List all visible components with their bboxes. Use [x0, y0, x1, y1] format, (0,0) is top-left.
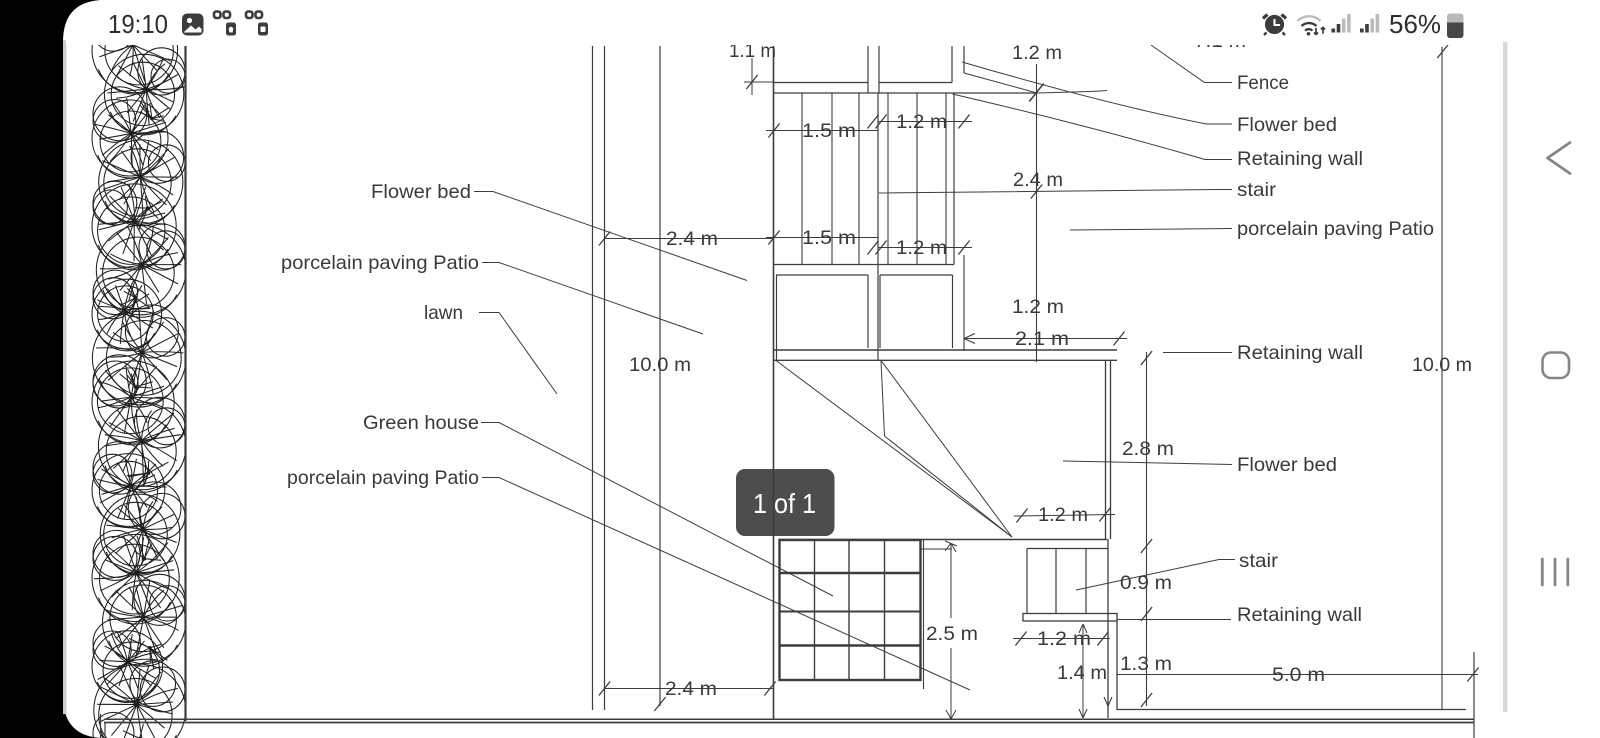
- bottom-left step vertical 2: [104, 723, 106, 738]
- hedge shrub row 1: [92, 7, 178, 93]
- lower stair top edge: [1027, 548, 1108, 550]
- dim 1.2 m low: [1013, 638, 1110, 640]
- hedge shrub row 3: [92, 100, 168, 176]
- stair landing top line: [773, 92, 1037, 94]
- extension line x964 lower: [963, 255, 965, 351]
- hedge shrub row 7: [92, 279, 162, 349]
- stair treads 1.5m side: [801, 93, 803, 265]
- svg-text:porcelain paving Patio: porcelain paving Patio: [281, 252, 479, 274]
- bottom retaining wall top line: [1117, 709, 1466, 711]
- green house leader: [481, 423, 833, 597]
- svg-text:porcelain paving Patio: porcelain paving Patio: [1237, 218, 1434, 240]
- hedge shrub row 11: [92, 454, 165, 527]
- svg-text:2.8 m: 2.8 m: [1122, 438, 1174, 460]
- 1.4 m dim vertical: [1082, 624, 1084, 718]
- second fence diagonal to tick: [964, 73, 1037, 93]
- main wall vertical: [773, 46, 775, 720]
- green house vertical mullions: [814, 541, 816, 679]
- svg-text:2.5 m: 2.5 m: [926, 623, 978, 645]
- 10.0 m dim vertical right: [1441, 47, 1443, 709]
- dim 1.2 m patio: [1014, 515, 1115, 517]
- svg-text:1.2 m: 1.2 m: [1012, 42, 1062, 64]
- dim 1.5 m row1: [766, 130, 878, 132]
- landing line extension: [1037, 91, 1107, 94]
- patio right edge outer: [1110, 360, 1112, 539]
- patio slope ray 2: [881, 361, 1012, 538]
- dim 1.5 m row2: [766, 237, 878, 239]
- bottom-left step vertical 1: [100, 714, 102, 738]
- svg-text:Retaining wall: Retaining wall: [1237, 604, 1362, 626]
- hedge shrub row 8: [92, 311, 186, 405]
- svg-text:2.4 m: 2.4 m: [1013, 169, 1063, 191]
- 2.8 m extension vertical: [1146, 352, 1148, 706]
- notification icon 3: [246, 12, 262, 19]
- svg-text:2.4 m: 2.4 m: [665, 678, 717, 700]
- porcelain paving patio 1 leader: [482, 263, 703, 335]
- stair bottom line: [773, 264, 954, 266]
- porcelain paving patio 2 leader: [482, 478, 970, 691]
- retaining wall low leader: [1117, 619, 1231, 621]
- hedge right border line: [184, 46, 186, 721]
- stair treads 1.2m side: [887, 93, 889, 265]
- svg-text:1.5 m: 1.5 m: [802, 120, 856, 142]
- hedge shrub row 12: [100, 494, 180, 574]
- screen left edge shadow line: [63, 40, 66, 714]
- boundary line left pair B: [604, 46, 606, 710]
- svg-text:porcelain paving Patio: porcelain paving Patio: [287, 467, 479, 489]
- garden bottom border line A: [104, 718, 1474, 720]
- extension line right of top boxes: [963, 46, 965, 73]
- boundary line left pair A: [592, 46, 594, 710]
- dim 1.2 m row1: [878, 121, 972, 123]
- green house horizontal band 1: [780, 572, 920, 575]
- nav back chevron: [1548, 143, 1571, 174]
- svg-text:2.4 m: 2.4 m: [666, 228, 718, 250]
- svg-text:Retaining wall: Retaining wall: [1237, 342, 1363, 364]
- notification icon 2: [214, 12, 230, 19]
- hedge shrub row 5: [92, 184, 176, 268]
- svg-text:stair: stair: [1239, 550, 1279, 572]
- patio bottom edge: [779, 539, 1107, 541]
- hedge shrub row 9: [92, 361, 174, 443]
- gallery notification icon: [182, 14, 204, 36]
- flower bed box top row (cut) edge 1: [867, 46, 869, 93]
- patio slope ray 1: [776, 361, 1012, 538]
- hedge shrub row 4: [99, 140, 183, 224]
- svg-text:Fence: Fence: [1237, 72, 1289, 94]
- top box bottom edge 1: [773, 82, 868, 84]
- retaining wall top line: [773, 349, 1117, 351]
- svg-text:stair: stair: [1237, 179, 1277, 201]
- green house horizontal band 3: [780, 644, 920, 647]
- 10.0 m vertical dimension line (left): [659, 46, 661, 706]
- hedge shrub row 6: [96, 225, 186, 315]
- svg-text:Flower bed: Flower bed: [371, 181, 471, 203]
- svg-text:Flower bed: Flower bed: [1237, 454, 1337, 476]
- hedge shrub row 13: [92, 534, 179, 621]
- page count badge 1 of 1: [736, 469, 835, 536]
- svg-text:10.0 m: 10.0 m: [629, 354, 691, 376]
- svg-text:1 of 1: 1 of 1: [753, 488, 816, 519]
- flower bed box row2 #2: [880, 274, 953, 276]
- right boundary lower vertical: [1473, 652, 1475, 738]
- hedge shrub row 2: [104, 54, 183, 133]
- svg-text:Green house: Green house: [363, 412, 479, 434]
- green house right double edge: [923, 539, 925, 689]
- svg-text:1.2 m: 1.2 m: [1012, 296, 1064, 318]
- retaining wall top leader: [953, 94, 1233, 160]
- svg-text:Retaining wall: Retaining wall: [1237, 148, 1363, 170]
- corridor top edge: [921, 548, 952, 550]
- stair low leader: [1076, 560, 1235, 591]
- svg-text:1.2 m: 1.2 m: [1038, 504, 1088, 526]
- patio slope ray 3: [885, 436, 1013, 537]
- lower stair treads: [1026, 549, 1028, 614]
- svg-text:Flower bed: Flower bed: [1237, 114, 1337, 136]
- svg-text:lawn: lawn: [424, 302, 463, 324]
- svg-text:1.2 m: 1.2 m: [896, 111, 947, 133]
- signal bars 1: [1332, 29, 1336, 33]
- svg-text:56%: 56%: [1389, 9, 1441, 39]
- nav recents bars: [1542, 559, 1568, 585]
- battery icon: [1447, 13, 1464, 38]
- hedge shrub row 15: [92, 631, 163, 702]
- dim 2.4 m bottom: [604, 688, 773, 690]
- flower bed row2 left edge: [776, 275, 778, 360]
- 1.1 m dim extension line: [751, 58, 753, 95]
- stair center boundary: [877, 93, 879, 360]
- fence leader: [1151, 45, 1232, 83]
- patio right edge inner: [1105, 360, 1107, 539]
- signal bars 2: [1360, 29, 1364, 33]
- flower bed box top row edge 2: [878, 46, 880, 93]
- retaining wall mid leader: [1163, 352, 1232, 354]
- flower bed top leader: [962, 62, 1232, 124]
- dim 2.1 m: [964, 338, 1127, 340]
- hedge shrub row 10: [98, 402, 186, 490]
- green house outer frame: [780, 540, 921, 680]
- svg-text:10.0 m: 10.0 m: [1412, 354, 1472, 376]
- dim 1.2 m row2: [878, 247, 972, 249]
- 1.1 m dim line: [744, 81, 773, 83]
- svg-text:1.2 m: 1.2 m: [896, 237, 947, 259]
- viewer page edge grey bar: [1503, 42, 1507, 712]
- nav home squircle: [1543, 353, 1570, 379]
- svg-text:2.1 m: 2.1 m: [1015, 328, 1069, 350]
- flower bed mid leader: [1063, 461, 1232, 465]
- svg-text:1.4 m: 1.4 m: [1057, 662, 1107, 684]
- stair leader / 2.4m line: [879, 190, 1232, 194]
- lawn leader: [479, 313, 557, 395]
- svg-text:5.0 m: 5.0 m: [1272, 664, 1325, 686]
- flower bed left leader: [474, 192, 747, 281]
- hedge shrub row 14: [103, 580, 186, 663]
- svg-text:1.5 m: 1.5 m: [802, 227, 856, 249]
- patio slope kink line: [881, 361, 885, 436]
- hedge shrub row 16: [94, 664, 186, 738]
- flower bed box top row edge 3: [951, 46, 953, 83]
- flower bed box row2 #1: [776, 274, 868, 276]
- stair right boundary: [953, 93, 955, 265]
- svg-text:19:10: 19:10: [108, 9, 168, 39]
- top box bottom edge 2: [879, 82, 952, 84]
- wifi icon with arrows: [1298, 16, 1321, 30]
- right wall verticals: [1107, 539, 1109, 718]
- alarm clock icon: [1263, 15, 1286, 36]
- lower retaining wall bar: [1023, 614, 1117, 622]
- green house horizontal band 2: [780, 611, 920, 613]
- svg-text:1.3 m: 1.3 m: [1120, 653, 1172, 675]
- vertical extension line x1036: [1036, 64, 1038, 362]
- dim 2.4 m left: [604, 238, 773, 240]
- garden bottom border line B: [104, 722, 1474, 724]
- 2.5 m dim line: [950, 543, 952, 618]
- retaining wall bottom line / patio top: [773, 359, 1117, 361]
- status bar white cover: [66, 0, 1600, 45]
- dim 5.0 m: [1117, 674, 1478, 676]
- porcelain paving patio right leader: [1070, 229, 1232, 231]
